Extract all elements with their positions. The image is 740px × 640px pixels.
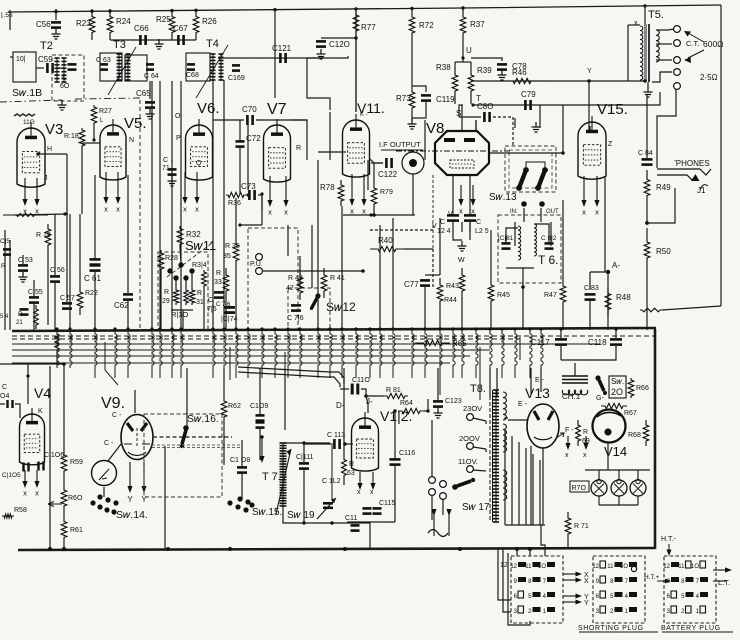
wire band crossing (462, 329, 464, 378)
wire c110 out (361, 389, 366, 396)
wire column (469, 222, 471, 232)
svg-text:C56: C56 (36, 20, 51, 29)
wire C80 right (493, 117, 513, 146)
capacitor C79 (524, 100, 527, 110)
capacitor C105 (22, 463, 24, 472)
resistor R58 (2, 514, 14, 518)
svg-text:R58: R58 (14, 507, 27, 514)
svg-text:R|3O: R|3O (171, 310, 189, 319)
wire t8 sec out (518, 442, 520, 525)
svg-text:x: x (565, 452, 569, 459)
ground C123 (434, 408, 443, 418)
wire band crossing (318, 329, 320, 378)
svg-text:R26: R26 (202, 17, 217, 26)
wire t8 sec out (504, 430, 506, 525)
capacitor C115b (373, 507, 382, 510)
wire sw13 dn (523, 208, 525, 222)
junction T (471, 103, 474, 106)
bus bend 1 (105, 342, 118, 385)
wire band crossing (440, 329, 442, 378)
svg-text:x: x (104, 205, 108, 214)
svg-text:K: K (38, 408, 43, 415)
wire r81 left (366, 395, 384, 397)
switch Sw.12 lever (315, 293, 320, 298)
svg-text:S𝑤 19: S𝑤 19 (287, 510, 315, 521)
arrow up b (448, 512, 450, 536)
wire band to v13b (540, 368, 542, 392)
junction top rail (194, 9, 197, 12)
resistor R49 (644, 170, 650, 205)
wire band crossing (128, 329, 130, 378)
wire c55 col (33, 280, 35, 296)
wire col 342 (341, 206, 343, 330)
junction band top (488, 327, 491, 330)
junction chassis bottom (458, 547, 462, 551)
wire mid h (82, 142, 100, 144)
svg-text:S𝑤 17.: S𝑤 17. (462, 502, 492, 513)
resistor R70 boxed (570, 481, 589, 492)
connector shorting plug (593, 556, 645, 623)
svg-text:12: 12 (663, 564, 670, 570)
svg-text:L2 5: L2 5 (475, 228, 489, 235)
svg-text:10|: 10| (16, 56, 26, 63)
resistor R45 (488, 278, 494, 308)
wire t8 sec out (511, 436, 513, 525)
svg-text:R38: R38 (436, 63, 451, 72)
svg-text:12: 12 (500, 562, 508, 569)
wire left stub (9, 10, 11, 30)
wire ct tap (656, 43, 672, 45)
wire v15 dn (604, 176, 606, 272)
svg-text:42: 42 (286, 285, 294, 292)
wire top HT rail (8, 5, 721, 12)
dashed box PU (248, 228, 298, 330)
arrow X drop (117, 172, 119, 200)
resistor R67 (601, 403, 627, 408)
svg-text:C59: C59 (38, 55, 53, 64)
junction plate (561, 151, 564, 154)
svg-text:C -: C - (112, 412, 122, 419)
svg-text:E -: E - (518, 401, 528, 408)
junction chassis bottom (528, 547, 532, 551)
wire t5 left col (627, 25, 629, 81)
tube V9 (121, 415, 153, 460)
junction top rail (170, 9, 173, 12)
ground gang line (58, 100, 67, 110)
junction y (587, 79, 590, 82)
wire column (247, 118, 249, 190)
terminal ac a1 (429, 477, 436, 484)
wire S up (459, 105, 463, 117)
junction band top (150, 327, 153, 330)
svg-text:R49: R49 (656, 183, 671, 192)
wire band crossing (248, 329, 250, 378)
wire r30 stub (185, 280, 187, 288)
wire v13 left (508, 419, 527, 421)
svg-text:P.U.: P.U. (250, 261, 263, 268)
wire c62 dn (127, 301, 129, 330)
capacitor C56b (50, 275, 60, 278)
capacitor C118 (610, 338, 622, 341)
transformer T4 sec (220, 54, 222, 80)
scribble above 11G (14, 114, 35, 116)
jack IF output (402, 152, 424, 174)
junction band top (328, 327, 331, 330)
junction band top (93, 327, 96, 330)
junction band top (55, 327, 58, 330)
wire col 262b (261, 210, 263, 225)
arrow X v12b (372, 472, 374, 486)
capacitor C70 (246, 115, 249, 125)
svg-text:’PHONES: ’PHONES (674, 159, 710, 168)
ground after C66 (155, 39, 164, 49)
capacitor C59 (46, 63, 49, 73)
junction c116 r64 (393, 409, 396, 412)
svg-text:Y: Y (141, 495, 147, 504)
wire band crossing (172, 329, 174, 378)
tube V6 (186, 125, 213, 180)
wire y down v15 (588, 81, 590, 126)
junction band top (438, 327, 441, 330)
inductor T8 coil a (503, 392, 506, 420)
svg-text:K -: K - (360, 112, 368, 118)
wire v3 col (15, 214, 68, 215)
wire left col dn (63, 364, 65, 452)
tube V3 (17, 128, 45, 187)
wire v9 routing (153, 436, 232, 438)
tube V13 (527, 404, 559, 448)
junction c73 (260, 192, 263, 195)
arrow X v14b (585, 436, 587, 446)
svg-text:x: x (195, 205, 199, 214)
terminal 230V (467, 414, 474, 421)
resistor R50 (644, 228, 650, 272)
junction t5b (643, 79, 646, 82)
wire column (311, 225, 313, 288)
capacitor C124 (447, 214, 459, 217)
transformer T2 primary (56, 58, 58, 82)
svg-text:C62: C62 (114, 301, 129, 310)
wire drop p1 b (529, 549, 531, 556)
svg-text:T2: T2 (40, 40, 53, 52)
svg-text:C11O: C11O (352, 377, 370, 384)
AC wavy (428, 530, 448, 537)
svg-text:R28: R28 (165, 255, 178, 262)
wire C65 drop (149, 81, 151, 99)
svg-text:O4: O4 (0, 393, 9, 400)
svg-text:L.T.: L.T. (718, 578, 730, 587)
wire column (355, 8, 357, 112)
wire band crossing (412, 329, 414, 378)
svg-text:R:18: R:18 (64, 133, 79, 140)
wire r43 dn (439, 308, 441, 330)
wire c108 dn (241, 474, 243, 500)
junction J (364, 394, 368, 398)
wire column (550, 222, 552, 246)
wire R77 col (355, 38, 357, 112)
junction band top (68, 327, 71, 330)
wire band crossing (330, 329, 332, 378)
capacitor C61b (90, 264, 101, 267)
switch Sw11 contact (173, 275, 178, 280)
capacitor C65 (145, 101, 155, 104)
svg-text:C 64: C 64 (144, 73, 159, 80)
wire taps col (431, 420, 433, 476)
resistor R60 (61, 486, 67, 510)
wire T4 arrow (196, 45, 228, 98)
wire col10 (9, 240, 11, 330)
wire col (159, 81, 161, 330)
svg-text:V6.: V6. (197, 100, 220, 117)
svg-text:R68: R68 (628, 432, 641, 439)
svg-text:C -: C - (104, 440, 114, 447)
wire band to t7 (284, 368, 286, 430)
wire C78 tap (471, 58, 502, 61)
switch Sw13 blade 1 (519, 170, 526, 188)
wire V8 plate (489, 152, 563, 154)
wire band crossing (342, 329, 344, 378)
svg-text:x: x (357, 489, 361, 496)
wire tap110 link (473, 470, 486, 471)
wire col70 (69, 214, 71, 330)
svg-text:C 63: C 63 (96, 57, 111, 64)
svg-text:x: x (634, 20, 638, 27)
wire r44 (461, 298, 463, 330)
arrow X drop (36, 178, 38, 202)
dashed box Sw13 inner (509, 150, 552, 188)
svg-text:2O: 2O (611, 387, 623, 397)
arrow drop c109 (261, 438, 263, 459)
ground C65 (146, 109, 155, 119)
wire col 540 (539, 105, 541, 128)
dashed box Sw12 (288, 288, 330, 330)
arrow X v4b (36, 470, 38, 484)
arrow X drop (583, 176, 585, 203)
wire jack bottom line (343, 214, 415, 216)
connector main plug (511, 556, 563, 623)
wire band to v13 (530, 368, 532, 394)
svg-text:R: R (197, 290, 202, 297)
junction band top (286, 327, 289, 330)
svg-text:J1: J1 (697, 186, 706, 195)
wire r22 up (79, 214, 81, 285)
wire v8 grid row (370, 229, 433, 231)
wire meter link (108, 444, 121, 461)
wire band crossing (275, 329, 277, 378)
wire c116 dn (394, 466, 396, 522)
resistor R41 (321, 268, 327, 298)
resistor R31 (189, 288, 195, 305)
underline shorting (579, 631, 658, 633)
svg-text:x: x (35, 489, 39, 498)
svg-text:R62: R62 (228, 403, 241, 410)
wire c118 dn (561, 346, 616, 360)
svg-text:S𝑤.: S𝑤. (611, 377, 624, 386)
wire v8 k1 (452, 175, 454, 214)
wire column (589, 126, 591, 130)
svg-text:C 56: C 56 (50, 267, 65, 274)
svg-text:Y: Y (587, 68, 592, 75)
svg-text:H.T.-: H.T.- (661, 536, 676, 543)
arrow 600 to top (688, 33, 704, 42)
wire R72 down (411, 42, 413, 88)
junction r64 (426, 409, 429, 412)
wire H col (66, 154, 68, 260)
svg-text:R47: R47 (544, 292, 557, 299)
inductor T6 L1 (518, 226, 521, 260)
capacitor C120 (316, 40, 326, 43)
wire r28 dn (160, 272, 162, 330)
switch Sw14 contact (97, 494, 102, 499)
resistor R79 (371, 182, 377, 210)
wire t8 sec h (505, 524, 545, 526)
svg-text:R50: R50 (656, 247, 671, 256)
svg-text:S: S (456, 109, 461, 118)
wire band crossing (541, 329, 543, 378)
svg-text:C12O: C12O (329, 40, 350, 49)
wire R46 line (471, 80, 558, 82)
svg-text:R: R (164, 289, 169, 296)
wire sw11 dash (167, 243, 212, 277)
svg-text:S𝑤11: S𝑤11 (185, 238, 216, 253)
svg-text:x: x (23, 489, 27, 498)
wire col224 (223, 80, 225, 330)
junction c109 drop (260, 435, 263, 438)
terminal PU2 (256, 268, 263, 275)
bus line 4 (12, 349, 490, 351)
svg-text:11OV.: 11OV. (458, 457, 478, 466)
resistor R43 (437, 278, 443, 308)
wire U split (455, 61, 471, 63)
wire column (514, 222, 516, 246)
svg-text:V7: V7 (267, 101, 287, 118)
wire c111 up (303, 443, 305, 462)
wire plug feeder 1 (498, 549, 511, 600)
svg-text:x: x (459, 207, 463, 216)
resistor R44 (459, 268, 465, 298)
wire column (461, 222, 463, 232)
bus line 6 (12, 362, 450, 364)
svg-text:12 4: 12 4 (437, 228, 451, 235)
wire c109 dn (259, 429, 261, 460)
junction band top (391, 327, 394, 330)
capacitor C121 (279, 53, 282, 63)
resistor R25 (169, 9, 175, 40)
wire v11 left in (318, 151, 346, 153)
resistor R66 (628, 378, 634, 398)
svg-text:C115: C115 (379, 500, 395, 507)
svg-text:C 55: C 55 (28, 289, 43, 296)
junction v5 g (92, 138, 95, 141)
wire v13 dn (542, 448, 544, 525)
wire sw11 drop (182, 310, 184, 330)
terminal ac a2 (429, 489, 436, 496)
resistor left wav (3, 214, 48, 217)
wire t8 tap b (485, 449, 487, 452)
lamp pilot (630, 480, 646, 496)
junction band top (170, 327, 173, 330)
svg-text:V: V (432, 223, 437, 230)
svg-text:OUT: OUT (546, 209, 559, 215)
junction chassis bottom (515, 547, 519, 551)
capacitor C106 (37, 462, 39, 471)
svg-text:21: 21 (16, 320, 23, 326)
wire col 318 (317, 160, 319, 330)
svg-text:C: C (62, 75, 67, 82)
svg-text:1O: 1O (538, 564, 546, 570)
svg-text:C66: C66 (134, 24, 149, 33)
wire band to c109 (259, 368, 261, 414)
connector battery plug (664, 556, 716, 623)
resistor R33 (223, 268, 229, 298)
wire T col down (562, 105, 564, 153)
capacitor C117 (555, 338, 567, 341)
switch Sw14 contact (113, 500, 118, 505)
svg-text:11: 11 (607, 564, 614, 570)
svg-text:63: 63 (347, 470, 355, 477)
wire r64 junction (424, 399, 428, 411)
capacitor C61 (90, 258, 101, 261)
wire r45 up (490, 230, 492, 278)
svg-text:T 7.: T 7. (262, 471, 281, 483)
arrow Y v9b (143, 462, 145, 489)
svg-text:R46: R46 (512, 68, 527, 77)
junction top rail (461, 6, 464, 9)
junction band top (474, 327, 477, 330)
wire sw17 dn b (442, 500, 444, 515)
wire band crossing (95, 329, 97, 378)
svg-text:T8.: T8. (470, 383, 486, 395)
ground C78 (498, 70, 507, 80)
switch Sw15 contact (249, 502, 254, 507)
arrow X v8b (472, 185, 474, 202)
junction band top (528, 327, 531, 330)
svg-text:29: 29 (162, 298, 170, 305)
junction band top (234, 327, 237, 330)
wire r29 stub (175, 280, 177, 288)
capacitor C123 (433, 400, 443, 403)
switch Sw14 contact (105, 497, 110, 502)
transformer T3 sec (127, 54, 129, 80)
arrow X v4a (24, 470, 26, 484)
terminal 110V (467, 466, 474, 473)
ground C53 (19, 272, 28, 282)
arrow X drop (596, 176, 598, 203)
capacitor C56 (51, 21, 61, 24)
wire t8 sec out (525, 448, 527, 525)
svg-text:C68: C68 (186, 72, 199, 79)
svg-text:R79: R79 (380, 189, 393, 196)
capacitor C115a (363, 507, 372, 510)
wire dashed gang (139, 100, 141, 330)
wire v4 col dn (49, 366, 51, 549)
wire lamps bottom (599, 504, 638, 506)
arrowhead T7 (287, 449, 292, 455)
svg-text:V: V (448, 211, 453, 218)
wire sw13 dn2 (540, 208, 542, 222)
capacitor C72 (236, 140, 245, 143)
wire column (235, 198, 237, 240)
svg-text:x: x (362, 207, 366, 216)
wire band crossing (393, 329, 395, 378)
junction band top (423, 327, 426, 330)
svg-text:R 81: R 81 (386, 387, 401, 394)
wire v14 dn (607, 443, 609, 470)
svg-text:J: J (44, 175, 48, 182)
junction chassis bottom (166, 547, 170, 551)
wire c110 in (340, 388, 349, 390)
wire sw17 dn a (431, 496, 433, 520)
